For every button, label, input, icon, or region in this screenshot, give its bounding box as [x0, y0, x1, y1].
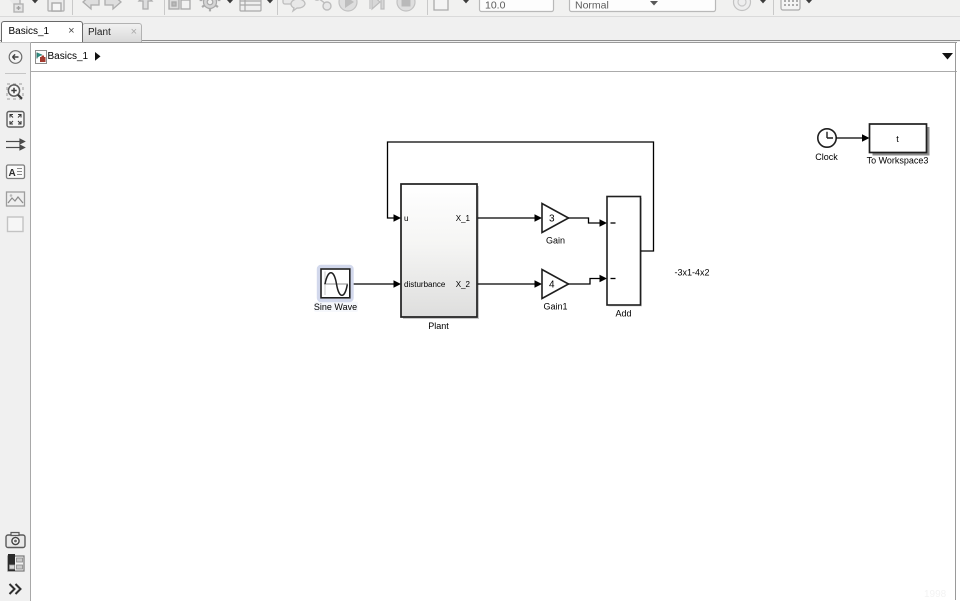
svg-text:A: A — [9, 168, 16, 179]
circle tool icon — [734, 0, 751, 11]
svg-text:X_1: X_1 — [456, 214, 471, 223]
left sidebar — [0, 42, 31, 601]
wire: Plant X_1 to Gain input — [478, 214, 542, 222]
back arrow — [83, 0, 99, 9]
svg-text:Normal: Normal — [575, 0, 609, 12]
run (play) icon — [339, 0, 357, 11]
feedback wire: Add output to Plant u input — [388, 142, 654, 251]
zoom tool icon — [7, 84, 23, 99]
tab strip — [0, 17, 960, 42]
keyboard icon — [781, 0, 800, 10]
file icon — [434, 0, 448, 10]
inactive tab Plant — [82, 23, 142, 42]
wire: Clock to To Workspace3 — [836, 134, 869, 142]
new-model icon — [8, 0, 23, 12]
active tab Basics_1 — [1, 21, 83, 44]
faint watermark — [924, 589, 946, 600]
svg-text:u: u — [404, 214, 408, 223]
svg-text:3: 3 — [549, 214, 555, 225]
table icon with caret — [240, 0, 261, 11]
dropdown caret — [32, 0, 38, 3]
library icon — [169, 0, 190, 9]
stop icon — [397, 0, 415, 11]
gear icon — [200, 0, 221, 11]
stop time field — [480, 0, 554, 12]
separator — [72, 0, 74, 15]
sine wave block selection halo — [314, 267, 358, 313]
separator — [427, 0, 429, 15]
up arrow — [139, 0, 152, 9]
camera icon — [6, 533, 25, 548]
link icon — [314, 0, 331, 10]
dropdown caret right — [942, 53, 954, 61]
svg-text:disturbance: disturbance — [404, 280, 446, 289]
svg-text:4: 4 — [549, 280, 555, 291]
model browser icon — [8, 554, 24, 571]
gain block: Gain (value 3) — [542, 204, 569, 233]
source block: Sine Wave — [321, 269, 350, 298]
breadcrumb bar — [31, 42, 957, 72]
svg-text:Sine Wave: Sine Wave — [314, 302, 357, 312]
source block: Clock — [818, 129, 836, 147]
sum block: Add — [607, 197, 642, 307]
svg-text:t: t — [896, 134, 899, 144]
signal arrows icon — [6, 139, 25, 150]
svg-text:Gain1: Gain1 — [543, 302, 567, 312]
image icon — [7, 192, 25, 206]
top toolbar (cropped at top of window) — [0, 0, 960, 17]
back circle button — [9, 51, 22, 64]
sink block: To Workspace3 — [870, 124, 930, 156]
separator — [164, 0, 166, 15]
separator — [277, 0, 279, 15]
svg-text:Clock: Clock — [815, 152, 838, 162]
fit-to-view icon — [7, 112, 24, 128]
subsystem block: Plant — [401, 184, 479, 319]
separator — [773, 0, 775, 15]
canvas right edge — [955, 42, 957, 600]
svg-text:-3x1-4x2: -3x1-4x2 — [674, 268, 709, 278]
forward arrow — [105, 0, 121, 9]
wire: Gain1 output to Add input 2 — [569, 275, 608, 284]
expand chevrons — [10, 584, 21, 594]
save icon — [48, 0, 64, 11]
annotation icon — [7, 165, 25, 179]
model icon — [35, 50, 47, 64]
wire: Gain output to Add input 1 — [569, 218, 608, 227]
svg-text:Add: Add — [615, 309, 631, 319]
svg-text:X_2: X_2 — [456, 280, 471, 289]
tabstrip bottom border — [0, 40, 960, 41]
gain block: Gain1 (value 4) — [542, 270, 569, 299]
breadcrumb arrow — [94, 52, 102, 62]
svg-text:10.0: 10.0 — [485, 0, 506, 12]
mode dropdown — [570, 0, 716, 12]
empty box icon — [8, 217, 24, 232]
chat icon — [283, 0, 305, 11]
svg-text:To Workspace3: To Workspace3 — [867, 156, 929, 166]
svg-text:Gain: Gain — [546, 236, 565, 246]
wire: Sine Wave output to Plant disturbance input — [350, 280, 401, 288]
wire: Plant X_2 to Gain1 input — [478, 280, 542, 288]
svg-text:Plant: Plant — [428, 321, 449, 331]
step forward icon — [370, 0, 384, 9]
